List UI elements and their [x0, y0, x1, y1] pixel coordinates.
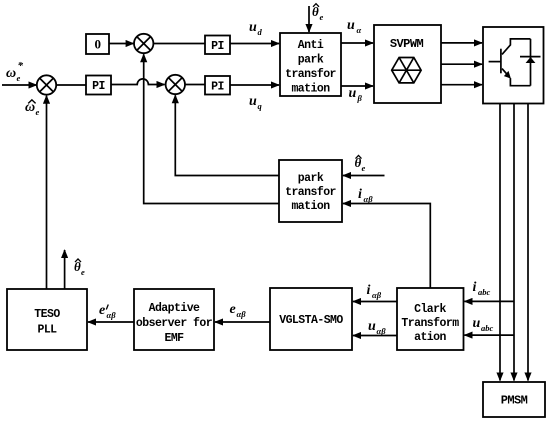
node theta_e estimate label (TESO output)	[74, 259, 85, 277]
TESO PLL block	[7, 289, 87, 350]
svg-text:u: u	[349, 86, 357, 101]
PI controller (speed)	[86, 76, 111, 95]
wire anti-park to SVPWM, node u_alpha	[341, 42, 373, 44]
node theta_e estimate label (top)	[312, 4, 324, 22]
wire adaptive observer to TESO PLL, node e'_alphabeta	[88, 321, 134, 323]
svg-text:ω: ω	[6, 66, 16, 81]
wire VGLSTA-SMO to adaptive observer, node e_alphabeta	[215, 321, 270, 323]
wire park output i_q to J3	[175, 95, 279, 175]
svg-text:e: e	[99, 303, 105, 318]
svg-text:EMF: EMF	[164, 332, 184, 345]
svg-text:q: q	[258, 101, 263, 111]
svg-text:u: u	[347, 18, 355, 33]
adaptive observer for EMF block	[134, 289, 214, 350]
wire J2 to d-axis PI	[153, 43, 205, 45]
svg-text:abc: abc	[478, 287, 491, 297]
node u_q label	[249, 94, 263, 111]
svg-text:PI: PI	[92, 80, 105, 93]
wire speed PI to J3 with hop over vertical line	[111, 79, 165, 85]
svg-text:ation: ation	[414, 331, 446, 344]
svg-text:VGLSTA-SMO: VGLSTA-SMO	[279, 314, 343, 327]
svg-text:β: β	[357, 93, 363, 103]
node e'_alphabeta label	[99, 303, 116, 320]
svg-text:e: e	[81, 267, 85, 277]
svg-text:Transform: Transform	[401, 317, 459, 330]
IGBT with antiparallel diode icon	[489, 39, 541, 86]
svg-text:*: *	[18, 60, 24, 72]
wire SVPWM to inverter phase a	[441, 42, 482, 44]
node u_d label	[249, 20, 263, 37]
svg-text:αβ: αβ	[372, 290, 382, 300]
svg-text:PMSM: PMSM	[501, 394, 528, 408]
wire theta_e output from TESO PLL	[64, 250, 66, 289]
wire Clark to VGLSTA-SMO, node u_alphabeta	[353, 335, 397, 337]
svg-text:abc: abc	[481, 323, 494, 333]
svg-text:αβ: αβ	[237, 309, 247, 319]
SVPWM block	[374, 25, 441, 103]
wire Clark to VGLSTA-SMO, node i_alphabeta	[353, 301, 397, 303]
svg-text:αβ: αβ	[107, 310, 117, 320]
wire i_abc tap to Clark	[465, 300, 515, 302]
svg-text:i: i	[358, 187, 362, 202]
svg-text:0: 0	[95, 37, 101, 52]
svg-text:transfor: transfor	[285, 186, 336, 199]
svg-text:d: d	[258, 27, 263, 37]
svg-text:transfor: transfor	[285, 68, 336, 81]
svg-text:αβ: αβ	[377, 326, 387, 336]
svg-text:park: park	[298, 54, 324, 67]
svg-text:αβ: αβ	[364, 194, 374, 204]
svg-text:u: u	[249, 20, 257, 35]
svg-text:e: e	[362, 163, 366, 173]
svg-text:SVPWM: SVPWM	[390, 37, 424, 51]
wire TESO PLL omega feedback up to J1	[46, 96, 48, 289]
Clark transformation block	[397, 288, 464, 350]
PMSM block	[483, 382, 545, 417]
summing junction J2 (d-axis)	[134, 34, 153, 53]
svg-text:PLL: PLL	[37, 324, 57, 337]
svg-text:i: i	[473, 280, 477, 295]
svg-text:u: u	[249, 94, 257, 109]
svg-text:PI: PI	[211, 81, 224, 94]
constant 0 block (d-axis reference)	[86, 34, 109, 54]
VGLSTA-SMO block	[270, 288, 352, 350]
svg-text:PI: PI	[211, 40, 224, 53]
node u_alpha label	[347, 18, 362, 35]
wire theta_e input to anti-park	[308, 6, 310, 32]
node e_alphabeta label	[230, 302, 247, 319]
node omega_e estimated label	[25, 100, 40, 117]
svg-text:TESO: TESO	[34, 308, 60, 321]
wire J3 to q-axis PI	[185, 84, 205, 86]
svg-text:park: park	[298, 172, 324, 185]
svg-text:Adaptive: Adaptive	[149, 302, 200, 315]
anti park transformation block	[280, 33, 341, 96]
wire park output i_d to J2	[144, 54, 279, 203]
inverter block	[483, 27, 544, 104]
node u_abc label	[473, 316, 494, 333]
svg-text:e: e	[17, 73, 21, 83]
wire J1 to speed PI	[56, 84, 86, 86]
PI controller (d-axis)	[205, 36, 230, 55]
svg-text:Clark: Clark	[414, 303, 446, 316]
svg-text:Anti: Anti	[298, 39, 324, 52]
wire inverter to PMSM phase b	[513, 104, 515, 381]
svg-text:mation: mation	[291, 83, 330, 96]
wire u_abc tap to Clark	[465, 334, 515, 336]
svg-text:e: e	[320, 12, 324, 22]
svg-text:i: i	[367, 283, 371, 298]
svg-text:u: u	[473, 316, 481, 331]
svg-text:u: u	[368, 319, 376, 334]
summing junction J1 (speed loop)	[37, 75, 56, 94]
wire d-axis PI to anti-park, node u_d	[230, 43, 279, 45]
wire i_alphabeta from Clark up to park block	[343, 204, 430, 289]
PI controller (q-axis)	[205, 76, 230, 95]
wire anti-park to SVPWM, node u_beta	[341, 85, 373, 87]
node theta_e estimate label (park)	[355, 155, 366, 173]
wire SVPWM to inverter phase b	[441, 63, 482, 65]
svg-text:e: e	[230, 302, 236, 317]
svg-text:mation: mation	[291, 200, 330, 213]
svg-text:α: α	[357, 25, 362, 35]
node u_beta label	[349, 86, 363, 103]
SVPWM voltage hexagon icon	[392, 58, 421, 83]
wire inverter to PMSM phase c	[527, 104, 529, 381]
wire 0 block to J2	[109, 43, 134, 45]
node u_alphabeta label (SMO input)	[368, 319, 386, 336]
park transformation block	[279, 160, 342, 222]
node i_abc label	[473, 280, 491, 297]
wire q-axis PI to anti-park, node u_q	[230, 84, 279, 86]
node omega_e* reference speed label	[6, 60, 24, 83]
summing junction J3 (q-axis)	[166, 75, 185, 94]
wire SVPWM to inverter phase c	[441, 84, 482, 86]
wire speed reference input	[2, 84, 37, 86]
node i_alphabeta label (park input)	[358, 187, 373, 204]
wire inverter to PMSM phase a	[499, 104, 501, 381]
svg-text:e: e	[36, 107, 40, 117]
node i_alphabeta label (SMO input)	[367, 283, 382, 300]
svg-text:observer for: observer for	[136, 317, 213, 330]
wire theta_e input to park block	[343, 175, 385, 177]
